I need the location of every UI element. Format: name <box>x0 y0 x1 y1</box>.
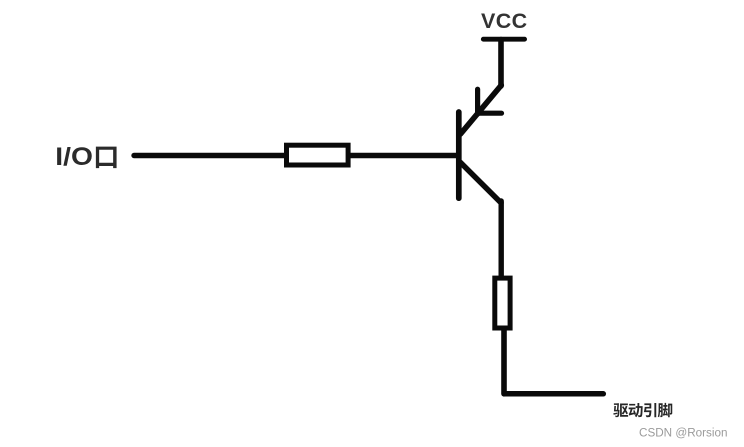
wire R2 down to corner <box>501 331 507 394</box>
net label drive pin (CJK) <box>613 403 672 417</box>
wire VCC rail to emitter <box>498 40 504 87</box>
wire I/O to base (through resistor) <box>134 153 456 158</box>
wire corner to drive pin <box>505 391 604 397</box>
CJK glyph kou (port) <box>96 147 117 169</box>
svg-text:VCC: VCC <box>481 9 528 33</box>
resistor R2 (load resistor) <box>495 278 510 328</box>
resistor R1 (base resistor) <box>287 145 349 165</box>
transistor Q1 collector diagonal <box>460 162 501 203</box>
wire collector down to R2 <box>499 201 504 277</box>
transistor Q1 emitter arrow barb horizontal <box>479 111 502 116</box>
svg-text:I/O: I/O <box>55 144 93 171</box>
transistor Q1 emitter diagonal <box>461 85 502 134</box>
transistor Q1 base bar <box>456 112 462 198</box>
transistor Q1 emitter arrow barb vertical <box>475 89 480 114</box>
svg-text:CSDN @Rorsion: CSDN @Rorsion <box>639 425 728 439</box>
VCC power rail bar <box>483 37 524 42</box>
